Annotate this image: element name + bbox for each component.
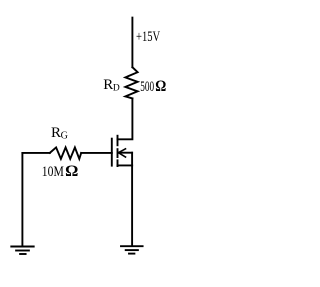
svg-text:500: 500 xyxy=(140,79,154,95)
ground (left / gate return) xyxy=(11,247,33,255)
MOSFET Q1 xyxy=(112,135,132,167)
wire body to source junction xyxy=(131,153,133,166)
wire supply rail (+15V to RD top) xyxy=(131,18,133,68)
svg-text:R: R xyxy=(51,125,61,141)
svg-text:G: G xyxy=(61,130,68,141)
svg-text:Ω: Ω xyxy=(155,78,166,95)
wire RD bottom to drain xyxy=(118,98,133,139)
gate line xyxy=(111,138,113,167)
svg-text:10M: 10M xyxy=(42,164,64,180)
value 10Mohm xyxy=(42,163,79,180)
channel source segment xyxy=(117,159,119,167)
value 500ohm xyxy=(140,78,166,95)
svg-text:D: D xyxy=(113,83,120,93)
resistor RD zigzag xyxy=(125,67,137,98)
resistor RG zigzag xyxy=(50,147,81,159)
wire gate to RG xyxy=(81,152,112,154)
label RD xyxy=(103,77,120,94)
arrowhead (n-channel) xyxy=(118,149,125,157)
label RG xyxy=(51,125,68,142)
svg-text:Ω: Ω xyxy=(65,163,78,180)
svg-text:R: R xyxy=(103,77,113,93)
channel drain segment xyxy=(117,135,119,146)
wire RG to left corner xyxy=(22,152,49,154)
channel body segment xyxy=(117,148,119,158)
svg-text:+15V: +15V xyxy=(136,29,160,45)
source lead xyxy=(118,164,133,166)
body lead with arrow xyxy=(119,152,132,154)
wire source to ground xyxy=(131,165,133,245)
ground (source) xyxy=(121,246,143,253)
wire left vertical to ground xyxy=(21,153,23,246)
